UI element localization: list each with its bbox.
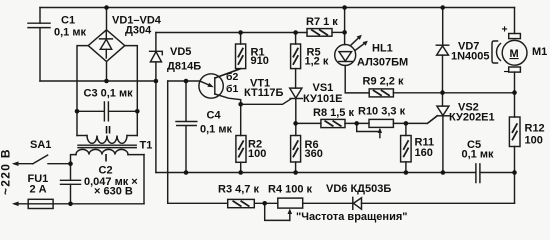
node zener rail / R1 top	[238, 30, 243, 35]
svg-text:КТ117Б: КТ117Б	[244, 87, 283, 99]
wire R3 R4 VD6 line	[168, 202, 228, 204]
wire R9 to motor line	[393, 92, 514, 94]
fuse FU1	[16, 203, 71, 205]
capacitor C2	[70, 164, 72, 180]
trimmer R10	[369, 119, 393, 127]
svg-text:M1: M1	[532, 46, 547, 58]
node R7 right / HL1 column	[342, 30, 347, 35]
svg-text:М: М	[510, 48, 519, 60]
node common rail / R11 bottom	[404, 170, 409, 175]
resistor R1	[240, 33, 242, 45]
svg-text:R4 100 к: R4 100 к	[268, 184, 313, 196]
svg-text:R8 1,5 к: R8 1,5 к	[313, 107, 354, 119]
svg-text:АЛ307БМ: АЛ307БМ	[357, 57, 408, 69]
node R9 right / VD7 anode / VS2 anode	[440, 90, 445, 95]
wire bridge AC left	[77, 46, 88, 136]
node C3 left / AC line	[75, 109, 80, 114]
thyristor VS1	[290, 88, 302, 98]
svg-text:Т1: Т1	[140, 140, 153, 152]
transformer T1 winding II	[77, 135, 87, 137]
node C3 right / AC line	[135, 109, 140, 114]
svg-text:R10 3,3 к: R10 3,3 к	[358, 106, 406, 118]
resistor R12	[509, 117, 520, 147]
svg-text:VD5: VD5	[170, 46, 191, 58]
wire primary box bottom	[71, 203, 145, 205]
svg-text:Д814Б: Д814Б	[167, 61, 201, 73]
svg-text:C3 0,1 мк: C3 0,1 мк	[84, 88, 134, 100]
wire bridge AC right	[125, 46, 138, 136]
svg-text:HL1: HL1	[372, 43, 393, 55]
node minus rail / VD5 anode	[154, 79, 159, 84]
node motor minus column	[512, 90, 517, 95]
capacitor C1	[39, 8, 41, 24]
capacitor C5	[476, 164, 480, 183]
capacitor C4	[185, 81, 187, 121]
node common rail / VS2 cathode	[441, 170, 446, 175]
svg-text:~220 В: ~220 В	[0, 148, 13, 195]
svg-text:II: II	[105, 125, 111, 137]
node common rail / R12 bottom	[512, 170, 517, 175]
svg-text:160: 160	[415, 147, 433, 159]
wire minus rail y81	[40, 80, 156, 82]
svg-text:R3 4,7 к: R3 4,7 к	[218, 184, 259, 196]
bridge rectifier VD1-VD4	[106, 8, 108, 30]
svg-text:−: −	[504, 66, 510, 78]
resistor R5	[295, 33, 297, 45]
resistor R2	[240, 104, 242, 135]
node minus rail / bridge minus	[104, 79, 109, 84]
node top rail / bridge plus	[104, 5, 109, 10]
svg-text:0,1 мк: 0,1 мк	[54, 27, 86, 39]
transistor VT1	[199, 74, 223, 98]
svg-text:100: 100	[525, 135, 543, 147]
node emitter / C4 top	[184, 79, 189, 84]
svg-text:"Частота вращения": "Частота вращения"	[296, 211, 407, 223]
svg-text:б2: б2	[226, 71, 238, 83]
node top rail / VD7 cathode	[440, 5, 445, 10]
wire common rail	[156, 172, 476, 174]
node R8 right / R10 left / wiper	[354, 121, 359, 126]
resistor R9	[369, 89, 393, 97]
svg-text:C4: C4	[207, 110, 222, 122]
wire R4 wiper loop	[289, 213, 291, 221]
svg-text:R12: R12	[525, 123, 545, 135]
wire zener rail y32	[156, 32, 307, 34]
svg-text:КУ202Е1: КУ202Е1	[449, 112, 495, 124]
wire right bottom drop	[514, 173, 516, 204]
node b1 / R2 top / VS1 gate	[238, 102, 243, 107]
svg-text:C1: C1	[61, 15, 75, 27]
svg-text:VD6 КД503Б: VD6 КД503Б	[326, 183, 391, 195]
svg-text:SA1: SA1	[30, 139, 51, 151]
node SA1 / C2 / winding I left	[68, 161, 73, 166]
wire R10 wiper	[379, 130, 381, 138]
node VS1 cathode / R8 left / R6 top	[293, 121, 298, 126]
transformer T1 core	[78, 145, 136, 147]
diode VD6	[352, 197, 354, 209]
wire top positive rail	[40, 7, 515, 9]
svg-text:910: 910	[251, 55, 269, 67]
svg-text:1N4005: 1N4005	[451, 51, 490, 63]
resistor R7	[307, 29, 332, 37]
svg-text:Д304: Д304	[125, 25, 152, 37]
svg-text:КУ101Е: КУ101Е	[303, 93, 343, 105]
wire VS1 gate	[241, 99, 291, 104]
node common rail / R6 bottom	[293, 170, 298, 175]
motor M1	[509, 34, 521, 39]
node zener rail / R5 top	[293, 30, 298, 35]
svg-text:360: 360	[305, 148, 323, 160]
node common rail / C4 bottom	[184, 170, 189, 175]
svg-text:R7 1 к: R7 1 к	[306, 16, 338, 28]
svg-text:б1: б1	[226, 83, 238, 95]
diode VD7	[442, 8, 444, 46]
capacitor C3	[77, 110, 104, 112]
wire emitter lead	[168, 80, 201, 82]
resistor R11	[405, 123, 407, 135]
svg-text:100: 100	[248, 148, 266, 160]
potentiometer R4	[278, 198, 303, 208]
svg-text:+: +	[502, 24, 508, 36]
node common rail / R2 bottom	[238, 170, 243, 175]
wire base b1 lead	[215, 94, 241, 104]
node R3 right / R4 left / wiper loop	[262, 201, 267, 206]
node FU1 / C2 bottom	[68, 202, 73, 207]
thyristor VS2	[442, 93, 444, 107]
wire emitter column	[167, 81, 169, 203]
resistor R3	[228, 199, 255, 207]
svg-text:× 630 В: × 630 В	[94, 186, 133, 198]
wire primary box right edge	[143, 155, 145, 204]
svg-text:0,1 мк: 0,1 мк	[200, 124, 232, 136]
svg-text:1,2 к: 1,2 к	[305, 56, 329, 68]
node R10 right / R11 top / VS2 gate	[404, 121, 409, 126]
wire motor top lead	[514, 8, 516, 34]
resistor R8	[296, 122, 321, 124]
resistor R6	[291, 136, 301, 163]
svg-text:2 А: 2 А	[30, 184, 47, 196]
wire base b2 lead	[215, 69, 241, 78]
zener diode VD5	[155, 33, 157, 52]
wire HL1 cathode	[345, 66, 369, 93]
svg-text:0,1 мк: 0,1 мк	[462, 149, 494, 161]
switch SA1	[16, 163, 33, 165]
transformer T1 winding I	[71, 155, 77, 164]
LED HL1	[344, 8, 346, 45]
svg-text:R9 2,2 к: R9 2,2 к	[363, 76, 404, 88]
node top rail / HL1 anode column	[342, 5, 347, 10]
svg-text:I: I	[105, 153, 108, 165]
svg-text:C2: C2	[99, 165, 113, 177]
